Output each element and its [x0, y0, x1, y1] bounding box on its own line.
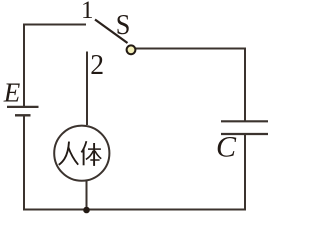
- switch S pivot circle: [127, 45, 136, 54]
- capacitor C bottom plate: [221, 133, 268, 135]
- wire contact-2 vertical: [86, 52, 88, 126]
- wire top-left horizontal: [23, 24, 86, 26]
- wire right vertical lower: [244, 135, 246, 211]
- svg-text:C: C: [216, 131, 237, 164]
- junction node dot: [83, 207, 90, 214]
- human body text 体 (drawn glyph): [81, 141, 101, 166]
- svg-text:S: S: [116, 10, 131, 41]
- human body text 人 (drawn glyph): [59, 142, 78, 165]
- capacitor C top plate: [221, 120, 268, 122]
- battery E long plate: [7, 106, 39, 108]
- battery E short plate: [15, 114, 31, 116]
- wire left vertical upper: [23, 24, 25, 107]
- wire top-right horizontal: [135, 48, 246, 50]
- svg-text:E: E: [3, 78, 21, 108]
- svg-text:2: 2: [90, 50, 104, 81]
- svg-text:1: 1: [81, 0, 94, 24]
- wire left vertical lower: [23, 116, 25, 211]
- switch S arm (blade): [95, 20, 128, 44]
- wire below human-body circle: [86, 181, 88, 210]
- human body circle: [54, 126, 109, 181]
- wire right vertical upper: [244, 48, 246, 121]
- wire bottom horizontal: [23, 209, 246, 211]
